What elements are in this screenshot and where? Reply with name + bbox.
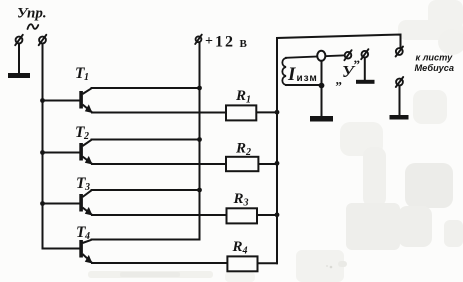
svg-text:R: R bbox=[233, 191, 244, 207]
svg-text:2: 2 bbox=[245, 147, 251, 158]
svg-text:”: ” bbox=[354, 57, 361, 72]
svg-text:I: I bbox=[287, 64, 296, 85]
svg-text:12: 12 bbox=[215, 34, 235, 51]
svg-text:R: R bbox=[235, 141, 246, 157]
svg-text:3: 3 bbox=[84, 182, 90, 193]
svg-text:к листу: к листу bbox=[416, 53, 454, 63]
svg-text:2: 2 bbox=[83, 131, 89, 142]
svg-text:изм: изм bbox=[297, 73, 318, 84]
svg-text:В: В bbox=[240, 38, 248, 50]
svg-text:1: 1 bbox=[246, 95, 251, 106]
svg-text:4: 4 bbox=[242, 246, 248, 257]
svg-text:Мебиуса: Мебиуса bbox=[415, 63, 455, 73]
svg-text:4: 4 bbox=[84, 231, 90, 242]
svg-text:R: R bbox=[232, 239, 243, 255]
svg-text:R: R bbox=[235, 88, 246, 104]
svg-text:Упр.: Упр. bbox=[17, 6, 47, 22]
svg-text:3: 3 bbox=[243, 198, 249, 209]
svg-text:+: + bbox=[205, 34, 213, 49]
svg-text:1: 1 bbox=[84, 72, 89, 83]
